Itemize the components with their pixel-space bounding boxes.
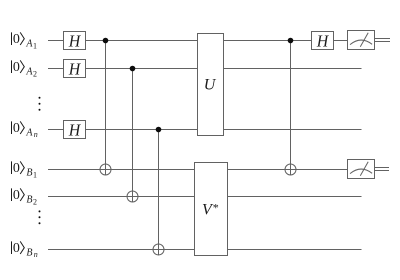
svg-text:1: 1 — [33, 41, 37, 50]
svg-text:0: 0 — [13, 161, 20, 176]
svg-text:1: 1 — [33, 170, 37, 179]
svg-text:2: 2 — [33, 197, 37, 206]
svg-text:U: U — [204, 77, 217, 94]
svg-text:0: 0 — [13, 241, 20, 256]
svg-text:A: A — [25, 128, 33, 139]
svg-text:n: n — [34, 250, 38, 259]
svg-text:H: H — [68, 32, 82, 51]
svg-text:0: 0 — [13, 121, 20, 136]
svg-text:2: 2 — [33, 69, 37, 78]
svg-text:H: H — [68, 60, 82, 79]
svg-text:*: * — [213, 201, 219, 215]
svg-text:B: B — [26, 168, 32, 179]
svg-text:B: B — [26, 248, 32, 259]
svg-text:0: 0 — [13, 60, 20, 75]
svg-text:0: 0 — [13, 32, 20, 47]
svg-text:B: B — [26, 195, 32, 206]
svg-text:0: 0 — [13, 188, 20, 203]
svg-text:H: H — [316, 32, 330, 51]
svg-text:n: n — [34, 130, 38, 139]
svg-text:H: H — [68, 121, 82, 140]
